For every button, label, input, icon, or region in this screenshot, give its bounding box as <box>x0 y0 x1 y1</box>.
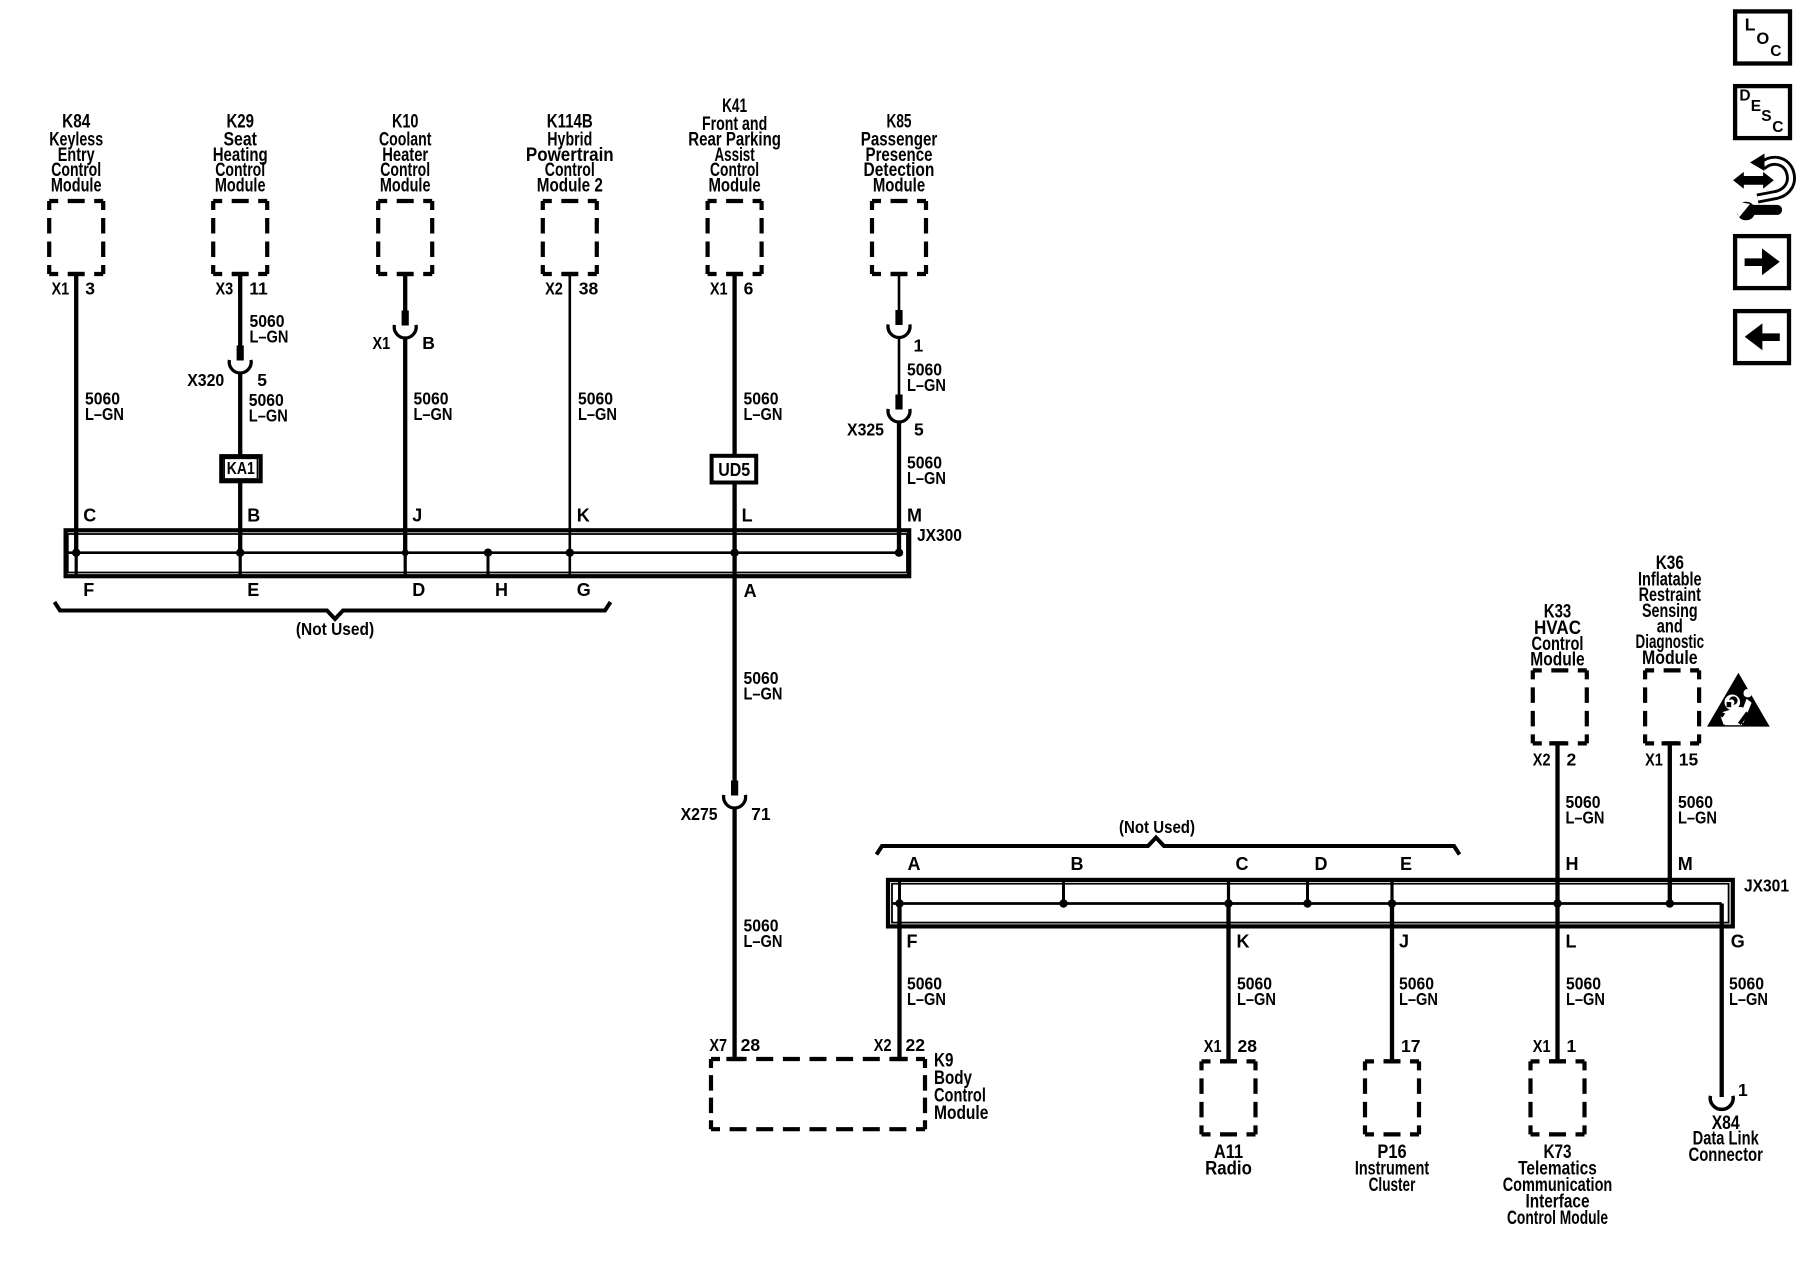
svg-text:E: E <box>247 580 259 600</box>
svg-text:L–GN: L–GN <box>907 468 946 488</box>
JX300 internal stub J-D with junction <box>404 553 407 575</box>
svg-text:38: 38 <box>579 278 599 298</box>
svg-text:L–GN: L–GN <box>1566 989 1605 1009</box>
JX300 internal stub H with junction <box>487 553 490 575</box>
svg-text:L–GN: L–GN <box>249 406 288 426</box>
svg-text:O: O <box>1756 30 1769 48</box>
wire JX301 pin L to K73, circuit 5060 L-GN <box>1555 904 1559 1062</box>
svg-text:L–GN: L–GN <box>414 404 453 424</box>
svg-text:(Not Used): (Not Used) <box>296 619 374 639</box>
svg-text:Module: Module <box>215 176 266 197</box>
wire K36 X1-15 to JX301 pin M, circuit 5060 L-GN <box>1662 741 1679 745</box>
svg-text:S: S <box>1761 108 1771 125</box>
inline connector X1 pin B of K10 harness <box>402 311 409 326</box>
brace (Not Used) over JX301 pins A B C D E <box>877 838 1460 855</box>
wire K29 X3-11 to inline connector X320 <box>232 272 249 276</box>
svg-text:3: 3 <box>85 278 95 298</box>
fuse block KA1 <box>221 456 260 481</box>
JX301 junction at pin M <box>1666 899 1674 907</box>
JX301 internal stub E-J with junction <box>1390 880 1393 904</box>
svg-text:5: 5 <box>914 420 924 440</box>
brace (Not Used) under JX300 pins F E D H G <box>55 602 611 619</box>
sidebar icon previous-page arrow button <box>1735 311 1789 363</box>
wire K85 to inline connector pin 1 <box>891 272 908 276</box>
svg-text:(Not Used): (Not Used) <box>1119 817 1195 837</box>
svg-text:X1: X1 <box>1645 749 1663 769</box>
wire K114B X2-38 to JX300 pin K, circuit 5060 L-GN <box>562 272 579 276</box>
wire JX301 pin F to K9 X2-22, circuit 5060 L-GN <box>897 904 901 1060</box>
wire K33 X2-2 to JX301 pin H, circuit 5060 L-GN <box>1549 741 1566 745</box>
wire X275 to K9 X7-28, circuit 5060 L-GN <box>732 808 736 1059</box>
module K9 Body Control Module box <box>711 1059 925 1129</box>
svg-text:5: 5 <box>257 370 267 390</box>
svg-text:Module: Module <box>873 176 925 197</box>
JX300 junction at pin L-A <box>730 549 738 557</box>
wire JX301 pin J to P16 instrument cluster, circuit 5060 L-GN <box>1390 904 1394 1062</box>
svg-text:G: G <box>577 580 591 600</box>
sidebar icon next-page arrow button <box>1735 236 1789 288</box>
splice pack JX300 inner box <box>68 534 907 573</box>
module K41 Front and Rear Parking Assist Control Module box <box>708 201 762 274</box>
splice pack JX301 inner box <box>892 884 1729 923</box>
svg-text:D: D <box>412 580 425 600</box>
svg-text:H: H <box>495 580 508 600</box>
svg-text:X325: X325 <box>847 420 884 440</box>
svg-text:C: C <box>1772 119 1783 136</box>
svg-text:28: 28 <box>741 1035 761 1055</box>
svg-text:L–GN: L–GN <box>250 327 289 347</box>
JX301 internal stub B with junction <box>1062 880 1065 904</box>
svg-text:22: 22 <box>906 1035 926 1055</box>
JX300 internal stub B-E with junction <box>239 553 242 575</box>
module K84 Keyless Entry Control Module box <box>49 201 103 274</box>
svg-text:L–GN: L–GN <box>1729 989 1768 1009</box>
svg-text:6: 6 <box>744 278 754 298</box>
module K36 Inflatable Restraint Sensing and Diagnostic Module box <box>1645 670 1699 743</box>
svg-text:JX300: JX300 <box>917 525 962 545</box>
wire JX301 pin G to X84 data link connector, circuit 5060 L-GN <box>1720 904 1724 1098</box>
wire UD5 to JX300 pin L <box>732 483 736 553</box>
svg-text:C: C <box>1770 43 1781 60</box>
splice pack JX300 bus bar <box>69 551 900 554</box>
JX300 junction at pin M <box>895 549 903 557</box>
svg-text:F: F <box>83 580 94 600</box>
svg-text:M: M <box>907 506 922 526</box>
svg-text:2: 2 <box>1567 749 1577 769</box>
svg-text:J: J <box>412 506 422 526</box>
svg-text:28: 28 <box>1238 1036 1258 1056</box>
svg-text:X3: X3 <box>216 278 234 298</box>
svg-text:L: L <box>742 506 753 526</box>
svg-text:A: A <box>908 854 921 874</box>
svg-text:X2: X2 <box>545 278 563 298</box>
JX301 internal stub D with junction <box>1306 880 1309 904</box>
svg-text:L–GN: L–GN <box>1566 808 1605 828</box>
svg-text:L–GN: L–GN <box>744 931 783 951</box>
wire JX300 pin A to inline connector X275, circuit 5060 L-GN <box>732 553 736 781</box>
JX301 junction at pin H-L <box>1553 899 1561 907</box>
module K33 HVAC Control Module box <box>1533 670 1587 743</box>
sidebar icon LOC button <box>1735 11 1790 63</box>
svg-text:C: C <box>83 506 96 526</box>
svg-text:L: L <box>1566 932 1577 952</box>
wire K10 to inline connector X1-B <box>397 272 414 276</box>
wire K41 X1-6 to fuse UD5, circuit 5060 L-GN <box>726 272 743 276</box>
inline connector pin 1 of K85 harness <box>895 310 902 325</box>
svg-text:71: 71 <box>751 804 771 824</box>
module K29 Seat Heating Control Module box <box>213 201 267 274</box>
svg-text:KA1: KA1 <box>227 458 255 478</box>
module K10 Coolant Heater Control Module box <box>378 201 432 274</box>
JX301 internal stub A-F with junction <box>898 880 901 904</box>
svg-text:11: 11 <box>249 278 268 298</box>
inline connector X325 pin 5 <box>895 395 902 410</box>
svg-text:X2: X2 <box>1533 749 1551 769</box>
wire X1-B to JX300 pin J, circuit 5060 L-GN <box>403 338 407 553</box>
svg-text:H: H <box>1566 854 1579 874</box>
svg-text:L–GN: L–GN <box>744 684 783 704</box>
svg-text:B: B <box>422 333 435 353</box>
svg-text:Module: Module <box>380 176 431 197</box>
svg-text:1: 1 <box>1738 1080 1748 1100</box>
module K114B Hybrid Powertrain Control Module 2 box <box>543 201 597 274</box>
svg-text:A: A <box>744 581 757 601</box>
svg-text:X275: X275 <box>681 804 718 824</box>
svg-text:L: L <box>1745 15 1756 35</box>
svg-text:L–GN: L–GN <box>1237 989 1276 1009</box>
JX300 internal stub C-F with junction <box>75 553 78 575</box>
JX301 internal stub C-K with junction <box>1227 880 1230 904</box>
svg-text:Module 2: Module 2 <box>537 176 603 197</box>
svg-text:Cluster: Cluster <box>1369 1175 1416 1196</box>
module K85 Passenger Presence Detection Module box <box>872 201 926 274</box>
wire KA1 to JX300 pin B <box>238 481 242 553</box>
svg-text:E: E <box>1751 98 1761 115</box>
fuse block UD5 <box>712 456 757 483</box>
svg-text:B: B <box>1071 854 1084 874</box>
svg-text:L–GN: L–GN <box>907 375 946 395</box>
airbag SIR warning triangle icon <box>1707 673 1770 727</box>
wire X320 to fuse KA1, circuit 5060 L-GN <box>238 373 242 456</box>
svg-text:JX301: JX301 <box>1744 876 1789 896</box>
wire JX301 pin K to A11 radio, circuit 5060 L-GN <box>1226 904 1230 1062</box>
wire X325 to JX300 pin M, circuit 5060 L-GN <box>897 422 901 553</box>
module K73 Telematics Communication Interface Control Module box <box>1531 1061 1585 1134</box>
svg-text:X1: X1 <box>52 278 70 298</box>
svg-text:L–GN: L–GN <box>578 404 617 424</box>
sidebar icon jump-to-wiring (arrows and wrench) <box>1732 154 1791 221</box>
svg-text:Module: Module <box>934 1103 988 1124</box>
svg-text:Module: Module <box>1642 648 1698 669</box>
svg-text:L–GN: L–GN <box>1678 808 1717 828</box>
svg-text:X7: X7 <box>709 1035 727 1055</box>
svg-text:X1: X1 <box>1533 1036 1551 1056</box>
svg-text:D: D <box>1739 88 1750 105</box>
module P16 Instrument Cluster box <box>1365 1061 1419 1134</box>
svg-text:C: C <box>1236 854 1249 874</box>
inline connector X320 pin 5 <box>237 346 244 361</box>
svg-text:F: F <box>907 932 918 952</box>
connector X84 data link connector terminal 1 <box>1710 1096 1733 1110</box>
module A11 Radio box <box>1202 1061 1256 1134</box>
svg-text:L–GN: L–GN <box>85 404 124 424</box>
svg-text:Module: Module <box>51 176 102 197</box>
svg-text:Radio: Radio <box>1205 1159 1252 1180</box>
svg-text:1: 1 <box>914 336 924 356</box>
wire connector 1 to X325, circuit 5060 L-GN <box>898 338 901 396</box>
svg-text:UD5: UD5 <box>718 459 750 480</box>
svg-text:L–GN: L–GN <box>1399 989 1438 1009</box>
inline connector X275 pin 71 <box>731 781 738 796</box>
svg-text:B: B <box>247 506 260 526</box>
svg-text:Connector: Connector <box>1688 1145 1763 1166</box>
svg-text:L–GN: L–GN <box>907 989 946 1009</box>
svg-text:E: E <box>1400 854 1412 874</box>
splice pack JX301 outer box <box>888 880 1733 927</box>
svg-text:X1: X1 <box>710 278 728 298</box>
svg-text:D: D <box>1315 854 1328 874</box>
svg-text:Control Module: Control Module <box>1507 1208 1608 1229</box>
svg-text:X2: X2 <box>874 1035 892 1055</box>
splice pack JX301 bus bar <box>893 902 1722 905</box>
sidebar icon DESC button <box>1735 86 1790 138</box>
svg-text:L–GN: L–GN <box>744 404 783 424</box>
svg-text:15: 15 <box>1679 749 1699 769</box>
svg-text:X320: X320 <box>187 370 224 390</box>
svg-text:K: K <box>1237 932 1250 952</box>
svg-text:G: G <box>1731 932 1745 952</box>
svg-text:17: 17 <box>1401 1036 1420 1056</box>
splice pack JX300 outer box <box>66 530 910 576</box>
svg-text:X1: X1 <box>1204 1036 1222 1056</box>
svg-text:Module: Module <box>1530 650 1584 671</box>
svg-text:1: 1 <box>1567 1036 1577 1056</box>
svg-text:K: K <box>577 506 590 526</box>
svg-text:M: M <box>1678 854 1693 874</box>
svg-text:Module: Module <box>708 176 760 197</box>
svg-text:X1: X1 <box>373 333 391 353</box>
wire K84 X1-3 to JX300 pin C, circuit 5060 L-GN <box>68 272 85 276</box>
JX300 internal stub K-G with junction <box>568 553 571 575</box>
svg-text:J: J <box>1399 932 1409 952</box>
